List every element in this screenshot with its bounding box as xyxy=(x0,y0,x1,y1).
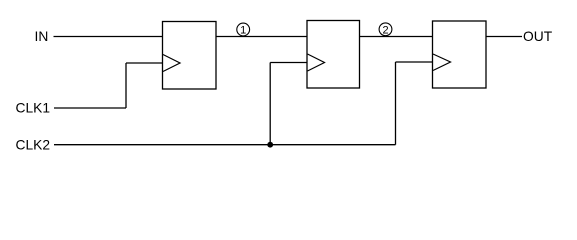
node 1 label (circled 1) xyxy=(237,23,250,36)
wire node2 (FF2 Q to FF3 D) xyxy=(360,36,433,38)
wire OUT xyxy=(486,36,522,38)
svg-text:IN: IN xyxy=(35,29,49,44)
wire CLK1 horizontal xyxy=(54,107,126,109)
flip-flop FF3 xyxy=(433,21,487,88)
wire CLK1 to FF1 clock xyxy=(126,62,163,64)
wire CLK1 vertical xyxy=(125,63,127,108)
svg-text:CLK2: CLK2 xyxy=(16,138,51,153)
flip-flop FF2 xyxy=(307,21,360,89)
wire node1 (FF1 Q to FF2 D) xyxy=(216,36,307,38)
clock edge triangle FF3 xyxy=(433,54,451,71)
wire CLK2 branch vertical to FF2 xyxy=(269,63,271,145)
clock edge triangle FF2 xyxy=(308,54,325,71)
wire CLK2 to FF3 clock xyxy=(396,61,433,63)
svg-text:OUT: OUT xyxy=(523,29,553,44)
wire CLK2 vertical to FF3 xyxy=(395,62,397,145)
clock edge triangle FF1 xyxy=(163,55,180,72)
node 2 label (circled 2) xyxy=(379,23,392,37)
svg-text:2: 2 xyxy=(382,24,388,36)
wire CLK2 horizontal xyxy=(54,144,396,146)
wire CLK2 branch to FF2 clock xyxy=(270,62,307,64)
flip-flop FF1 xyxy=(163,22,217,90)
junction dot on CLK2 xyxy=(267,142,273,148)
wire IN xyxy=(54,36,163,38)
svg-text:CLK1: CLK1 xyxy=(16,101,51,116)
svg-text:1: 1 xyxy=(240,25,246,37)
